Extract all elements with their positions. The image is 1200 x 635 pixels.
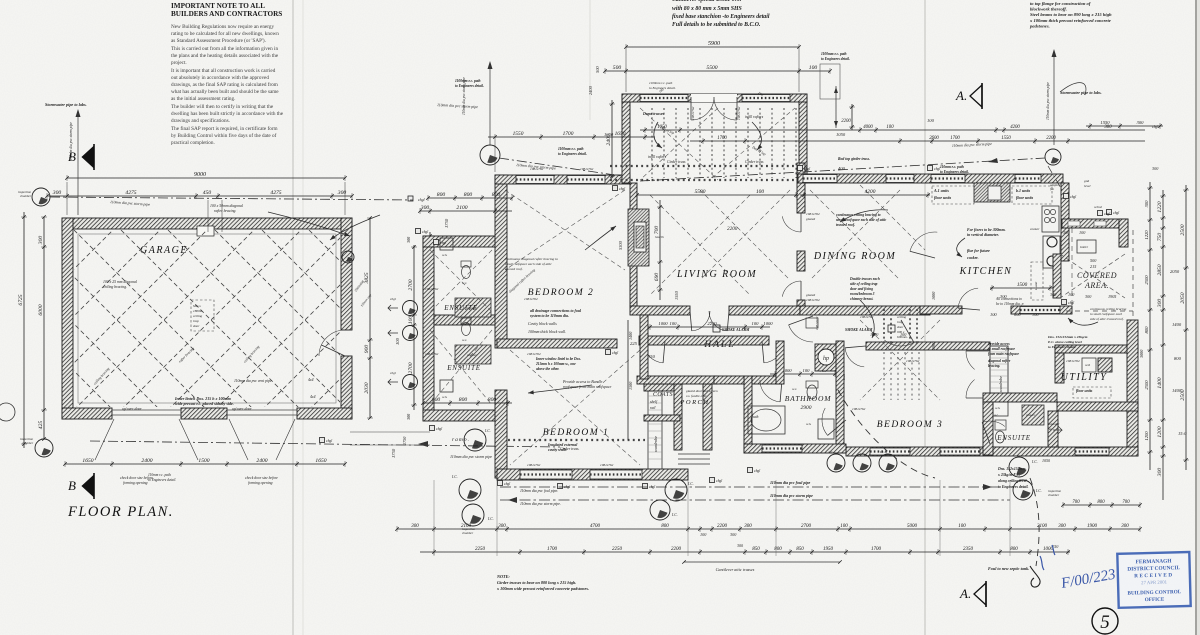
svg-text:be to 110mm dia. p: be to 110mm dia. p (996, 302, 1024, 306)
svg-text:glazed: glazed (806, 293, 815, 297)
svg-text:2200: 2200 (1046, 136, 1056, 141)
svg-text:v.s. fanlite over.: v.s. fanlite over. (686, 394, 707, 398)
svg-text:x 100mm wide precast reinforce: x 100mm wide precast reinforced concrete… (496, 586, 589, 591)
svg-text:hp: hp (823, 356, 829, 362)
svg-text:from main roofspace: from main roofspace (988, 352, 1019, 356)
svg-text:side of ceiling trap: side of ceiling trap (849, 282, 878, 286)
svg-text:small roofspace each side of a: small roofspace each side of attic (505, 262, 552, 266)
svg-text:chamber: chamber (22, 441, 34, 445)
svg-text:Rod top girder truss.: Rod top girder truss. (838, 157, 870, 161)
svg-text:1550: 1550 (674, 290, 679, 300)
svg-text:100mm thick block wall.: 100mm thick block wall. (528, 330, 566, 334)
svg-text:fan: fan (1050, 187, 1054, 191)
svg-text:1981x762: 1981x762 (1066, 359, 1080, 363)
svg-text:3825: 3825 (364, 272, 370, 284)
svg-text:Dns. 152x152mm x 23kg/m: Dns. 152x152mm x 23kg/m (1047, 335, 1088, 339)
svg-text:2400: 2400 (256, 458, 267, 464)
svg-text:1100mm r.c. path: 1100mm r.c. path (649, 81, 673, 85)
svg-text:FERMANAGH: FERMANAGH (1135, 558, 1172, 565)
svg-text:100: 100 (408, 316, 414, 325)
svg-text:E.C. above ceiling level: E.C. above ceiling level (1047, 340, 1082, 344)
svg-text:300: 300 (1157, 299, 1163, 309)
svg-text:chgl: chgl (326, 439, 332, 443)
svg-text:400: 400 (838, 166, 846, 171)
svg-text:infill rafters: infill rafters (745, 115, 764, 119)
svg-text:2700: 2700 (801, 524, 812, 529)
svg-text:COVERED: COVERED (1077, 271, 1117, 280)
svg-text:4275: 4275 (270, 190, 281, 196)
svg-text:Cantilever special Dome over: Cantilever special Dome over (672, 0, 743, 3)
svg-text:shower: shower (1026, 413, 1036, 417)
svg-text:in vertical diameter.: in vertical diameter. (967, 233, 999, 237)
svg-text:1400: 1400 (1172, 322, 1182, 327)
svg-text:100: 100 (395, 337, 400, 345)
svg-text:2250: 2250 (612, 547, 623, 552)
svg-text:chgl: chgl (436, 427, 442, 431)
svg-text:The final SAP report is requir: The final SAP report is required, in cer… (171, 125, 278, 132)
svg-text:COATS: COATS (653, 392, 673, 398)
svg-text:1981x762: 1981x762 (425, 352, 439, 356)
svg-text:100: 100 (990, 312, 997, 317)
svg-text:1650: 1650 (315, 458, 326, 464)
svg-text:IMPORTANT NOTE TO ALL: IMPORTANT NOTE TO ALL (171, 2, 265, 10)
svg-text:300: 300 (737, 543, 743, 548)
svg-text:700: 700 (654, 226, 660, 235)
svg-text:4700: 4700 (590, 524, 601, 529)
svg-text:2200: 2200 (707, 321, 717, 326)
svg-text:1700: 1700 (950, 136, 960, 141)
svg-text:300: 300 (1104, 125, 1112, 130)
svg-text:1700: 1700 (871, 547, 882, 552)
svg-text:BEDROOM 3: BEDROOM 3 (877, 420, 944, 430)
svg-text:fixed base stanchion -to Engin: fixed base stanchion -to Engineers detai… (672, 14, 770, 20)
svg-text:300: 300 (730, 532, 737, 537)
svg-text:450: 450 (203, 190, 212, 196)
svg-text:110mm dia pvc storm pipe: 110mm dia pvc storm pipe (770, 493, 813, 498)
svg-text:GARAGE: GARAGE (140, 245, 188, 256)
svg-text:the plans and the heating deta: the plans and the heating details associ… (171, 53, 279, 59)
svg-text:w/d: w/d (1085, 363, 1090, 367)
svg-text:L-unit: L-unit (1034, 281, 1038, 291)
svg-text:door: door (897, 325, 904, 329)
svg-text:The builder will then to certi: The builder will then to certify in writ… (171, 103, 274, 110)
svg-text:110mm dia pvc foul pipe.: 110mm dia pvc foul pipe. (520, 489, 558, 493)
svg-text:side of attic trussed roof.: side of attic trussed roof. (1090, 317, 1124, 321)
svg-text:forming opening: forming opening (123, 481, 148, 485)
svg-text:For fixers to be 300mm.: For fixers to be 300mm. (967, 228, 1006, 232)
svg-text:up/over door: up/over door (122, 407, 142, 411)
svg-text:cavity walls: cavity walls (548, 448, 567, 452)
svg-text:800: 800 (1010, 547, 1018, 552)
svg-text:1550: 1550 (1001, 136, 1011, 141)
svg-text:5500: 5500 (695, 189, 706, 195)
svg-text:continuous ceiling bracing: continuous ceiling bracing (1090, 307, 1127, 311)
svg-text:5500: 5500 (706, 65, 717, 71)
svg-text:5300: 5300 (618, 240, 623, 250)
svg-text:trap: trap (193, 319, 199, 323)
svg-text:wardrobe: wardrobe (653, 436, 658, 452)
svg-text:100: 100 (1079, 230, 1086, 235)
svg-text:chgl: chgl (504, 482, 510, 486)
svg-text:BUILDERS AND CONTRACTORS: BUILDERS AND CONTRACTORS (171, 10, 282, 18)
svg-text:1500: 1500 (628, 381, 633, 390)
svg-text:800: 800 (1174, 356, 1182, 361)
svg-text:as the initial assessment rati: as the initial assessment rating. (171, 96, 235, 102)
svg-text:100: 100 (700, 532, 707, 537)
svg-text:1900: 1900 (1087, 524, 1098, 529)
svg-text:It is important that all const: It is important that all construction wo… (171, 68, 276, 74)
svg-text:rating to be calculated for al: rating to be calculated for all new dwel… (171, 30, 279, 37)
svg-text:300: 300 (1085, 294, 1092, 299)
svg-text:6000: 6000 (38, 304, 44, 315)
svg-text:1981x762: 1981x762 (425, 287, 439, 291)
svg-text:chgl: chgl (934, 167, 940, 171)
svg-text:chgl: chgl (390, 297, 396, 301)
svg-text:blockwork thereoff.: blockwork thereoff. (1030, 7, 1067, 12)
svg-text:4x4: 4x4 (310, 395, 316, 399)
svg-text:chgl: chgl (390, 371, 396, 375)
svg-text:level: level (1084, 184, 1090, 188)
svg-text:1050: 1050 (836, 132, 846, 137)
svg-text:1050: 1050 (657, 125, 667, 130)
svg-text:with 80 x 80 mm x 5mm SHS: with 80 x 80 mm x 5mm SHS (672, 6, 742, 12)
svg-text:1100mm r.c. path: 1100mm r.c. path (558, 147, 584, 151)
svg-text:1050: 1050 (604, 132, 614, 137)
svg-text:800: 800 (661, 524, 669, 529)
svg-text:2500: 2500 (1144, 275, 1149, 285)
svg-text:300: 300 (1063, 230, 1070, 235)
svg-text:what has actually been built a: what has actually been built and should … (171, 89, 279, 95)
svg-text:A.: A. (959, 586, 971, 601)
svg-text:5: 5 (1100, 612, 1110, 633)
svg-text:100: 100 (752, 321, 760, 326)
svg-text:300: 300 (52, 190, 62, 196)
svg-text:to Engineers detail.: to Engineers detail. (455, 84, 484, 88)
svg-text:800: 800 (1144, 326, 1149, 334)
svg-text:3000: 3000 (1139, 349, 1144, 358)
svg-text:w.h.: w.h. (442, 253, 448, 257)
svg-text:100: 100 (886, 125, 894, 130)
svg-text:100: 100 (670, 321, 678, 326)
svg-text:door: door (193, 324, 200, 328)
svg-text:1900: 1900 (931, 341, 936, 350)
svg-text:floor units: floor units (934, 195, 952, 200)
svg-text:gnd: gnd (1084, 179, 1089, 183)
svg-text:chgl: chgl (716, 479, 722, 483)
svg-text:I.C.: I.C. (484, 429, 491, 433)
svg-text:300: 300 (1157, 468, 1163, 478)
svg-text:ENSUITE: ENSUITE (996, 434, 1031, 442)
svg-text:100: 100 (927, 118, 935, 123)
svg-text:2200: 2200 (841, 119, 851, 124)
svg-text:1000: 1000 (658, 321, 668, 326)
svg-text:2200: 2200 (717, 524, 728, 529)
svg-text:1750: 1750 (391, 448, 396, 458)
svg-text:750: 750 (1157, 233, 1163, 242)
svg-text:w.h.: w.h. (995, 406, 1001, 410)
svg-text:4x4: 4x4 (308, 378, 314, 382)
svg-text:2500: 2500 (1180, 224, 1186, 235)
svg-text:chamber: chamber (462, 531, 474, 535)
svg-text:1981x762: 1981x762 (600, 463, 614, 467)
svg-text:w.h.: w.h. (442, 395, 448, 399)
svg-text:1981x762: 1981x762 (806, 212, 820, 216)
svg-text:chgl: chgl (612, 351, 618, 355)
svg-text:out absolutely in accordance w: out absolutely in accordance with the ap… (171, 75, 269, 81)
svg-text:w.c.: w.c. (462, 338, 467, 342)
svg-text:2400: 2400 (141, 458, 152, 464)
svg-text:chgl: chgl (1070, 195, 1076, 199)
svg-text:chgl: chgl (804, 167, 810, 171)
svg-text:to small roofspace each: to small roofspace each (1090, 312, 1122, 316)
svg-text:2350: 2350 (963, 547, 974, 552)
svg-text:Provide access: Provide access (988, 342, 1010, 346)
svg-text:1550: 1550 (513, 131, 524, 137)
svg-text:ceiling: ceiling (193, 314, 203, 318)
svg-text:A.1 units: A.1 units (933, 188, 949, 193)
svg-text:to Engineers detail.: to Engineers detail. (148, 478, 176, 482)
svg-text:6725: 6725 (18, 294, 24, 305)
svg-text:chgl: chgl (1113, 211, 1119, 215)
svg-text:215mm h x 100mm w., one: 215mm h x 100mm w., one (535, 362, 576, 366)
svg-text:to Engineers detail.: to Engineers detail. (940, 170, 969, 174)
svg-text:cooker: cooker (1030, 227, 1040, 231)
svg-text:300: 300 (1144, 200, 1149, 208)
svg-text:1650: 1650 (615, 131, 626, 137)
svg-text:dwelling has been built strict: dwelling has been built strictly in acco… (171, 111, 284, 117)
svg-text:chgl: chgl (422, 230, 428, 234)
svg-text:to Engineers detail.: to Engineers detail. (558, 152, 587, 156)
svg-text:OFFICE: OFFICE (1145, 597, 1165, 604)
svg-text:1200: 1200 (1144, 431, 1149, 441)
svg-text:4200: 4200 (1010, 125, 1020, 130)
svg-text:chgl: chgl (1104, 212, 1110, 216)
svg-text:Insulated external: Insulated external (547, 443, 578, 447)
svg-text:ENSUITE: ENSUITE (443, 304, 478, 312)
svg-text:1981x762: 1981x762 (852, 407, 866, 411)
svg-text:800: 800 (459, 397, 468, 403)
svg-text:fan: fan (1048, 427, 1052, 431)
svg-text:bath: bath (752, 415, 759, 419)
svg-text:by Building Control within fiv: by Building Control within five days of … (171, 132, 277, 139)
svg-text:1000: 1000 (931, 291, 936, 300)
svg-text:I.C.: I.C. (487, 517, 494, 521)
svg-text:forming opening: forming opening (248, 481, 273, 485)
svg-text:2200: 2200 (727, 226, 738, 232)
svg-text:850: 850 (752, 547, 760, 552)
svg-text:1050: 1050 (1042, 458, 1050, 463)
svg-text:x 100mm thick precast reinforc: x 100mm thick precast reinforced concret… (1029, 18, 1111, 23)
svg-text:infill rafters: infill rafters (648, 155, 667, 159)
svg-text:9000: 9000 (194, 172, 206, 178)
svg-text:100 x 50mm diagonal: 100 x 50mm diagonal (210, 204, 243, 208)
svg-text:300: 300 (38, 236, 44, 246)
svg-text:w.h.: w.h. (806, 422, 812, 426)
svg-text:to Engineers detail.: to Engineers detail. (821, 57, 850, 61)
svg-text:shelf: shelf (650, 400, 658, 404)
svg-text:800: 800 (488, 397, 497, 403)
svg-text:1750: 1750 (444, 218, 449, 228)
svg-text:ceiling bracing.: ceiling bracing. (103, 285, 127, 289)
svg-text:4275: 4275 (125, 190, 136, 196)
svg-text:floor units: floor units (1076, 389, 1093, 393)
svg-text:2050: 2050 (1180, 292, 1186, 303)
svg-text:300: 300 (406, 236, 411, 243)
svg-text:27 APR 2001: 27 APR 2001 (1141, 581, 1168, 587)
svg-text:4200: 4200 (865, 189, 876, 195)
svg-text:690: 690 (654, 273, 660, 282)
svg-text:300: 300 (498, 524, 506, 529)
svg-text:chimney breast.: chimney breast. (850, 297, 873, 301)
svg-text:1200: 1200 (1157, 426, 1163, 437)
svg-text:chgl: chgl (440, 241, 446, 245)
svg-text:door and fixing: door and fixing (850, 287, 873, 291)
svg-text:above the other.: above the other. (536, 367, 560, 371)
svg-text:trussed roof.: trussed roof. (836, 223, 855, 227)
svg-text:drawings and specifications.: drawings and specifications. (171, 117, 230, 124)
svg-text:1220: 1220 (1144, 230, 1149, 240)
svg-text:Dome trusses: Dome trusses (642, 112, 665, 116)
svg-text:w.c.: w.c. (994, 413, 999, 417)
svg-text:1400: 1400 (1157, 377, 1163, 388)
svg-text:110mm r.c. path: 110mm r.c. path (148, 473, 171, 477)
svg-text:AREA.: AREA. (1084, 281, 1109, 290)
svg-text:all drainage connections to fo: all drainage connections to foul (530, 309, 582, 313)
svg-text:4000: 4000 (863, 125, 873, 130)
svg-text:This is carried out from all t: This is carried out from all the informa… (171, 45, 278, 52)
svg-text:system to be 110mm dia.: system to be 110mm dia. (529, 314, 569, 318)
svg-text:2200: 2200 (671, 547, 682, 552)
svg-text:110mm dia pvc storm pipe.: 110mm dia pvc storm pipe. (520, 502, 561, 506)
svg-text:w/tnd: w/tnd (1094, 205, 1102, 209)
svg-text:New Building Regulations now r: New Building Regulations now require an … (171, 24, 274, 30)
svg-text:100: 100 (809, 65, 818, 71)
svg-text:chgl: chgl (619, 187, 625, 191)
svg-text:diagonal rafter: diagonal rafter (988, 359, 1011, 363)
svg-text:flue for future: flue for future (967, 249, 990, 253)
svg-text:chamber: chamber (1048, 493, 1060, 497)
svg-text:1100mm r.c. path: 1100mm r.c. path (455, 79, 481, 83)
svg-text:700: 700 (1122, 500, 1130, 505)
svg-text:Steel beams to bear on 890 lon: Steel beams to bear on 890 long x 215 hi… (1030, 12, 1112, 17)
svg-text:B: B (68, 478, 76, 493)
svg-text:trussed roof.: trussed roof. (505, 267, 523, 271)
svg-text:300: 300 (1058, 524, 1066, 529)
svg-text:425: 425 (38, 421, 44, 430)
svg-text:5900: 5900 (708, 41, 720, 47)
svg-text:110mm r.c. path: 110mm r.c. path (940, 165, 964, 169)
svg-text:2700: 2700 (408, 279, 414, 290)
svg-text:PORCH: PORCH (679, 399, 709, 406)
svg-text:cooker.: cooker. (967, 256, 979, 260)
svg-text:I.C.: I.C. (451, 475, 458, 479)
svg-text:300: 300 (420, 205, 430, 211)
svg-text:project.: project. (171, 60, 187, 66)
svg-text:I.C.: I.C. (1035, 489, 1042, 493)
svg-text:Double trusses each: Double trusses each (849, 277, 880, 281)
svg-text:1981x762: 1981x762 (580, 167, 594, 171)
svg-text:1905: 1905 (1108, 294, 1116, 299)
svg-text:Full details to be submitted t: Full details to be submitted to B.C.O. (672, 22, 760, 28)
svg-text:chgl: chgl (1152, 125, 1158, 129)
svg-text:900: 900 (364, 345, 370, 354)
svg-text:floor units: floor units (1016, 195, 1034, 200)
svg-text:continuous diagonal rafter bra: continuous diagonal rafter bracing to (505, 257, 558, 261)
svg-text:1700: 1700 (547, 547, 558, 552)
svg-text:boiler: boiler (1080, 245, 1089, 249)
svg-text:as Standard Assessment Procedu: as Standard Assessment Procedure (or 'SA… (171, 37, 266, 44)
svg-text:300: 300 (1050, 292, 1057, 297)
svg-text:practical completion.: practical completion. (171, 140, 215, 146)
svg-text:to top flange for construction: to top flange for construction of (1030, 1, 1091, 6)
svg-text:Provide access to Bundle: Provide access to Bundle (562, 380, 603, 384)
svg-text:2700: 2700 (408, 362, 414, 373)
svg-text:100: 100 (958, 524, 966, 529)
svg-text:1750: 1750 (402, 436, 407, 445)
svg-text:salandor: salandor (1048, 422, 1060, 426)
svg-text:1981x762: 1981x762 (806, 298, 820, 302)
svg-text:to Engineers detail.: to Engineers detail. (649, 86, 676, 90)
svg-text:w.c.: w.c. (792, 387, 797, 391)
svg-text:SMOKE ALARM: SMOKE ALARM (845, 328, 873, 332)
svg-text:300: 300 (411, 524, 419, 529)
svg-text:1650: 1650 (82, 458, 93, 464)
svg-text:2600: 2600 (929, 136, 939, 141)
svg-text:1000: 1000 (1043, 547, 1054, 552)
svg-text:padstones.: padstones. (1029, 23, 1050, 28)
svg-text:1500: 1500 (1017, 282, 1028, 288)
svg-text:2100: 2100 (456, 205, 467, 211)
svg-text:Girder trusses to bear on 800: Girder trusses to bear on 800 long x 215… (497, 580, 576, 585)
svg-text:1950: 1950 (823, 547, 834, 552)
svg-text:2400: 2400 (588, 85, 593, 95)
svg-text:to Engineers detail.: to Engineers detail. (1048, 345, 1076, 349)
svg-text:I.C.: I.C. (671, 513, 678, 517)
svg-text:300: 300 (1152, 166, 1159, 171)
svg-text:rafter bracing.: rafter bracing. (214, 209, 236, 213)
svg-text:up/over door: up/over door (232, 407, 252, 411)
svg-text:2500: 2500 (1144, 380, 1149, 390)
svg-text:HALL: HALL (703, 340, 735, 350)
svg-text:2500: 2500 (1180, 389, 1186, 400)
svg-text:850: 850 (796, 547, 804, 552)
svg-text:Min x: Min x (192, 304, 201, 308)
svg-text:chgl: chgl (754, 469, 760, 473)
svg-text:room/bedroom 3: room/bedroom 3 (850, 292, 875, 296)
svg-text:1981x762: 1981x762 (691, 106, 695, 120)
svg-text:110mm dia pvc storm pipe: 110mm dia pvc storm pipe (1046, 82, 1050, 120)
svg-text:300: 300 (1121, 524, 1129, 529)
svg-text:1700: 1700 (717, 136, 727, 141)
svg-text:2900: 2900 (801, 405, 812, 411)
svg-text:300: 300 (406, 413, 411, 420)
svg-text:1.C.: 1.C. (828, 450, 834, 454)
svg-text:wide precast r.c. placed side: wide precast r.c. placed side by side. (175, 401, 234, 406)
svg-text:Stormwater pipe to labs.: Stormwater pipe to labs. (1060, 90, 1102, 95)
svg-text:300: 300 (1137, 120, 1145, 125)
svg-text:LIVING ROOM: LIVING ROOM (676, 269, 757, 280)
svg-text:to small roofspace: to small roofspace (988, 347, 1015, 351)
svg-text:Foul to new septic tank.: Foul to new septic tank. (988, 566, 1029, 571)
svg-text:glazed door and screen: glazed door and screen (686, 389, 718, 393)
svg-text:800: 800 (432, 397, 441, 403)
svg-text:800: 800 (774, 547, 782, 552)
svg-text:A.: A. (955, 88, 967, 103)
svg-text:100: 100 (1068, 292, 1075, 297)
svg-text:glazed: glazed (806, 217, 815, 221)
svg-text:I.C.: I.C. (879, 450, 885, 454)
svg-text:1981x762: 1981x762 (906, 359, 920, 363)
